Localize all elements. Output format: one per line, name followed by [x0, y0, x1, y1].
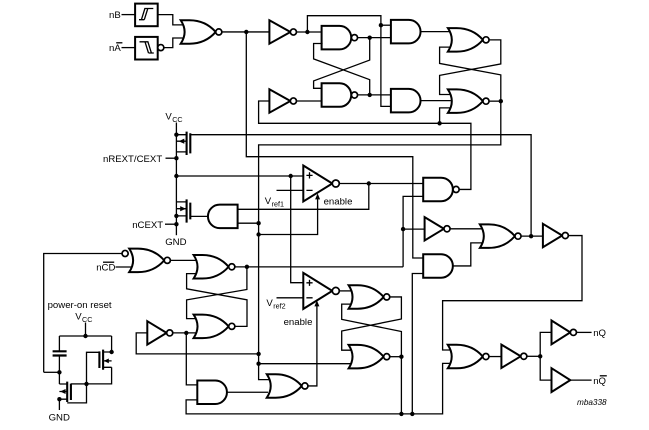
wire G6 out to NOR G9 — [421, 100, 451, 102]
wire Q2 gate from AND G16 — [190, 215, 208, 217]
wire node to buffer G27 — [540, 356, 551, 380]
junction Q3/Q4 gate node — [84, 382, 88, 386]
wire C1 node to left rail — [44, 371, 60, 373]
wire U1 output to NAND G13 — [339, 183, 423, 185]
label enable (U2) — [284, 317, 313, 328]
junction nCEXT node — [174, 222, 178, 226]
svg-text:CC: CC — [82, 315, 92, 324]
junction node to comparators — [174, 174, 178, 178]
svg-text:GND: GND — [165, 237, 186, 248]
wire VCC stub — [85, 323, 87, 337]
junction L3 to enable of comparator U1 — [256, 232, 260, 236]
junction Q3 drain at rail — [109, 350, 113, 354]
junction G17 output — [245, 265, 249, 269]
junction C1 bottom node — [57, 370, 61, 374]
svg-text:nA: nA — [109, 43, 121, 54]
wire node down to Q4 drain — [67, 384, 86, 403]
schmitt trigger falling (nA) — [135, 37, 164, 60]
wire nCD input — [116, 266, 132, 268]
NOR gate G8 — [448, 28, 489, 52]
AND gate G21 — [197, 381, 227, 405]
wire G10 out to OR latch G17 — [170, 259, 196, 261]
wire G7 out to G4 — [297, 100, 322, 102]
wire branch to AND G16 lower input — [238, 222, 259, 224]
svg-text:nCD: nCD — [96, 263, 115, 274]
junction AND G5 top input tap — [379, 23, 383, 27]
wire C1 node down to Q4 — [58, 372, 60, 384]
wire branch to NOR G19 lower input — [259, 363, 352, 365]
junction G3 output — [368, 35, 372, 39]
figure label mba338 — [577, 398, 607, 407]
junction G2 output node — [305, 30, 309, 34]
wire L3 net: G9 out down-left and to AND G16/NOR G22 inputs — [259, 101, 501, 379]
wire Vref1 to U1 minus input — [277, 189, 304, 191]
wire G9 out — [489, 100, 501, 102]
svg-text:nB: nB — [109, 10, 121, 21]
wire Q4 gate wire — [71, 383, 87, 385]
junction bottom rail to AND G12 — [410, 412, 414, 416]
NOR gate G19a — [349, 285, 390, 309]
junction L3 to AND G16 input — [256, 221, 260, 225]
ground label GND (power-on reset) — [49, 412, 70, 423]
junction Q2 source at rail — [174, 214, 178, 218]
junction G20 output — [184, 331, 188, 335]
wire G18 out cross-couple to G17 — [187, 274, 247, 327]
junction G4 output — [368, 93, 372, 97]
buffer G26 (inverting, nQ) — [552, 321, 577, 345]
wire G12 out to OR G15 — [453, 243, 483, 266]
wire G20 out down to AND G21 — [186, 333, 197, 385]
svg-text:nREXT/CEXT: nREXT/CEXT — [103, 154, 162, 165]
wire G19b out down to bottom rail — [400, 357, 402, 414]
wire G3 lower input from G4 output — [314, 44, 370, 95]
wire branch to inverter G20 input — [136, 333, 258, 354]
wire node to comparator U1 plus input — [176, 175, 303, 177]
schmitt trigger rising (nB) — [135, 4, 158, 27]
junction G15 output node — [529, 234, 533, 238]
svg-text:ref2: ref2 — [273, 302, 285, 311]
svg-text:ref1: ref1 — [272, 200, 284, 209]
junction main input node — [244, 30, 248, 34]
junction output node — [538, 354, 542, 358]
wire schmitt-B to NOR G1 — [158, 15, 184, 25]
wire VCC rail — [175, 123, 177, 236]
NAND gate G13 — [423, 178, 459, 202]
transistor Q4 (NMOS, power-on reset) — [59, 382, 71, 402]
NAND gate G4 — [322, 83, 358, 107]
svg-text:nQ: nQ — [593, 376, 606, 387]
wire G14 out to OR G15 — [450, 228, 482, 230]
junction U1 output — [367, 181, 371, 185]
wire G2 node up over to AND G5/G6 rail — [307, 16, 391, 107]
input label nCEXT — [132, 220, 163, 231]
wire G4 out to AND G6 — [358, 94, 391, 96]
wire G19b out — [390, 356, 402, 358]
wire POR right rail — [111, 336, 113, 352]
wire bottom rail up to AND G12 lower input — [412, 274, 423, 414]
comparator U2 — [303, 273, 339, 309]
label Vref2 — [266, 298, 285, 310]
NOR gate G1 (input trigger) — [181, 20, 222, 44]
wire schmitt-A to NOR G1 — [164, 38, 184, 48]
wire Q3 gate to node — [87, 352, 100, 384]
label Vref1 — [265, 196, 284, 208]
wire OR-latch G17 out up to NAND G13 lower input — [403, 196, 423, 266]
wire tap to AND G5 top input — [381, 24, 391, 26]
inverter G25 — [501, 345, 526, 368]
supply label VCC (power-on reset) — [75, 311, 92, 323]
AND gate G5 — [391, 20, 421, 44]
NOR gate G19b — [349, 345, 390, 369]
svg-text:nQ: nQ — [593, 328, 606, 339]
wire G27 out to nQbar — [570, 379, 591, 381]
wire G17 cross-couple to G18 — [187, 267, 247, 319]
wire branch up to NOR G9 third input — [440, 108, 451, 123]
wire G21 out to NOR G22 — [227, 391, 268, 393]
inverter G14 — [425, 217, 450, 240]
junction VCC to transistor Q1 — [174, 133, 178, 137]
wire G15 out to inverter G23 — [521, 235, 543, 237]
wire G26 out to nQ — [577, 331, 592, 333]
label enable (U1) — [324, 197, 353, 208]
wire down to comparator U2 plus input — [291, 176, 304, 283]
junction G14 input tap — [401, 227, 405, 231]
ground label GND (middle) — [165, 237, 186, 248]
NOR gate G10 (nCD clear) — [122, 249, 170, 273]
wire GND stub (POR) — [58, 399, 60, 410]
wire G23 out feedback down-left to NOR G24 — [443, 236, 582, 350]
wire POR left branch — [58, 336, 60, 372]
AND gate G16 (mirrored, drives Q2 gate) — [208, 205, 238, 229]
wire nREXT/CEXT input — [166, 157, 177, 159]
wire main node down to L4 rail and AND G12 top input — [246, 32, 423, 258]
junction G9 output — [499, 99, 503, 103]
label power-on reset — [48, 300, 112, 311]
NOR gate G9 — [448, 89, 489, 113]
junction G19b output — [399, 355, 403, 359]
inverter G23 — [543, 224, 568, 247]
wire L2 net: G15 node up and left to Q1 gate — [190, 135, 531, 236]
comparator U1 — [303, 166, 339, 202]
input label nCD (overline CD) — [96, 262, 115, 273]
inverter G20 — [147, 321, 172, 344]
NOR gate G24 — [448, 345, 489, 369]
AND gate G6 — [391, 89, 421, 113]
input label nREXT/CEXT — [103, 154, 162, 165]
wire G19a out cross-couple to G19b — [342, 297, 402, 350]
svg-text:GND: GND — [49, 412, 70, 423]
inverter G2 — [269, 20, 296, 43]
wire G2 out — [297, 31, 322, 33]
NOR gate G22 — [267, 374, 308, 398]
junction bottom rail at G19b — [399, 412, 403, 416]
junction comparator plus rail — [289, 174, 293, 178]
wire G3 out cross-couple to G4 input — [314, 38, 370, 89]
transistor Q1 (PMOS to VCC) — [176, 132, 190, 155]
junction nREXT/CEXT node — [174, 156, 178, 160]
inverter G7 — [269, 89, 296, 112]
wire nCEXT input — [165, 223, 176, 225]
wire G1 output — [222, 31, 270, 33]
junction VCC rail (POR) — [83, 334, 87, 338]
wire Q3 source down to node — [87, 367, 112, 384]
transistor Q2 (NMOS to CEXT) — [176, 199, 190, 222]
wire G20 out to G18 — [173, 332, 196, 334]
wire G22 out to comparator U2 enable with arrow — [308, 300, 319, 386]
wire G8 out cross-couple to G9 input — [440, 40, 501, 95]
wire POR top rail — [59, 335, 111, 337]
wire node to buffer G26 — [540, 332, 551, 356]
svg-text:power-on reset: power-on reset — [48, 300, 112, 311]
wire nA to schmitt — [122, 47, 135, 49]
OR gate G17 — [194, 255, 235, 279]
wire G14 input — [403, 228, 425, 230]
wire U2 out to NOR latch G19a — [339, 290, 351, 292]
wire Vref2 to U2 minus input — [277, 297, 304, 299]
supply label VCC — [165, 111, 182, 123]
junction L3 to inverter G20 input — [256, 352, 260, 356]
AND gate G12 — [423, 254, 453, 278]
junction L3 to NOR latch G19 input — [256, 362, 260, 366]
wire G17 out — [235, 266, 403, 268]
capacitor C1 — [53, 351, 67, 355]
OR gate G15 — [480, 224, 521, 248]
wire enable line of U1 with arrow — [259, 193, 321, 234]
svg-text:enable: enable — [324, 197, 353, 208]
wire U1 output feedback to AND G16 top input — [238, 184, 369, 210]
wire G25 out — [527, 355, 540, 357]
output label nQ — [593, 328, 606, 339]
OR gate G18 — [194, 315, 235, 339]
svg-text:nCEXT: nCEXT — [132, 220, 163, 231]
input label nA (overline A) — [109, 43, 122, 54]
NAND gate G3 — [322, 26, 358, 50]
wire nB to schmitt — [122, 14, 135, 16]
transistor Q3 (PMOS, power-on reset) — [99, 350, 111, 370]
output label nQ bar (overline Q) — [593, 376, 607, 387]
wire G19a lower input from G19b — [342, 304, 402, 357]
junction Q4 source at GND rail — [57, 397, 61, 401]
wire power-on-reset to G10 inverted input — [44, 254, 123, 373]
wire G5 out to NOR G8 — [421, 31, 451, 33]
input label nB — [109, 10, 121, 21]
svg-text:CC: CC — [172, 115, 182, 124]
buffer G27 (nQ bar) — [552, 368, 571, 392]
wire G9 cross-couple to G8 input — [440, 47, 501, 101]
svg-text:mba338: mba338 — [577, 398, 607, 407]
wire G3 out to AND G5 — [358, 37, 391, 39]
wire G21 lower input from bottom rail; rail to NOR G24 input — [186, 363, 451, 414]
svg-text:enable: enable — [284, 317, 313, 328]
junction L1 at NOR G9 branch — [437, 121, 441, 125]
wire L1 net: NAND G13 out to G7 input — [259, 101, 471, 189]
wire G24 out to inverter G25 — [489, 356, 501, 358]
